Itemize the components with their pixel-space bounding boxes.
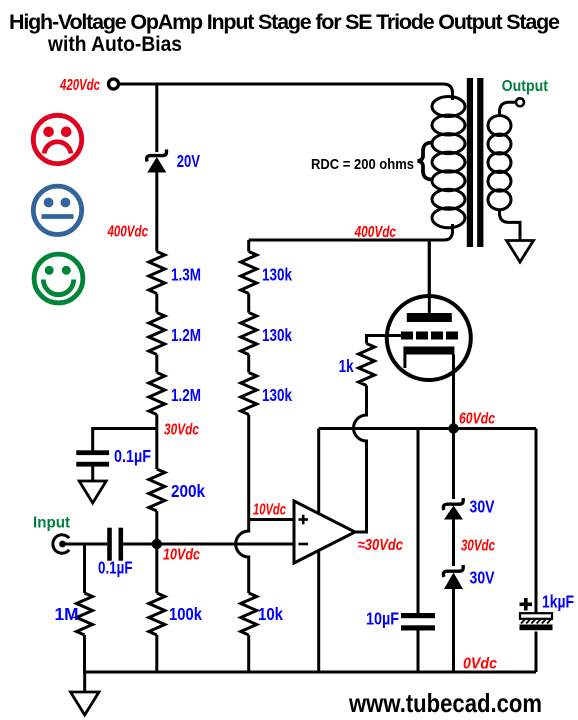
svg-text:30Vdc: 30Vdc	[461, 538, 495, 555]
svg-text:RDC = 200 ohms: RDC = 200 ohms	[311, 156, 414, 173]
svg-text:130k: 130k	[262, 385, 292, 405]
svg-text:400Vdc: 400Vdc	[354, 224, 396, 241]
svg-text:30V: 30V	[470, 497, 495, 517]
svg-text:1.2M: 1.2M	[171, 325, 201, 345]
svg-text:100k: 100k	[169, 604, 202, 624]
svg-text:1.3M: 1.3M	[171, 265, 201, 285]
svg-text:1k: 1k	[339, 356, 354, 376]
svg-text:10Vdc: 10Vdc	[253, 502, 286, 519]
svg-text:130k: 130k	[262, 325, 292, 345]
svg-text:with Auto-Bias: with Auto-Bias	[47, 32, 182, 56]
svg-text:10k: 10k	[258, 604, 283, 624]
svg-text:420Vdc: 420Vdc	[59, 77, 100, 94]
svg-text:Input: Input	[33, 515, 70, 532]
svg-text:10µF: 10µF	[366, 609, 399, 629]
svg-text:≈30Vdc: ≈30Vdc	[358, 537, 403, 554]
svg-text:1kµF: 1kµF	[542, 592, 574, 612]
svg-text:1M: 1M	[55, 604, 79, 624]
svg-text:200k: 200k	[171, 481, 205, 501]
svg-text:30V: 30V	[470, 568, 495, 588]
svg-text:20V: 20V	[177, 151, 201, 171]
svg-text:130k: 130k	[262, 265, 292, 285]
svg-text:High-Voltage OpAmp Input Stage: High-Voltage OpAmp Input Stage for SE Tr…	[9, 10, 560, 34]
svg-text:400Vdc: 400Vdc	[107, 224, 148, 241]
svg-text:Output: Output	[502, 78, 548, 95]
svg-text:0.1µF: 0.1µF	[114, 446, 151, 466]
svg-text:www.tubecad.com: www.tubecad.com	[348, 688, 542, 718]
svg-text:10Vdc: 10Vdc	[163, 547, 200, 564]
svg-text:0.1µF: 0.1µF	[98, 558, 133, 578]
svg-text:0Vdc: 0Vdc	[463, 656, 497, 673]
svg-text:60Vdc: 60Vdc	[459, 411, 495, 428]
svg-text:1.2M: 1.2M	[171, 385, 201, 405]
svg-text:30Vdc: 30Vdc	[164, 422, 199, 439]
